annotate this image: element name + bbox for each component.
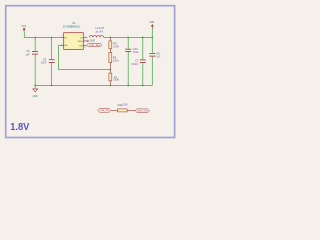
sheet frame bbox=[6, 6, 175, 138]
svg-text:100K: 100K bbox=[113, 46, 119, 49]
svg-text:GND: GND bbox=[90, 40, 95, 42]
wire FB vertical bbox=[57, 45, 59, 69]
resistor R7 bbox=[109, 73, 120, 82]
wire VSYS down to input rail bbox=[23, 32, 25, 38]
wire C9 down to ground rail bbox=[51, 63, 53, 86]
node junction rail/C6/GND bbox=[34, 85, 36, 87]
node junction rail/C10 bbox=[127, 85, 129, 87]
wire C10 column bbox=[127, 37, 129, 48]
wire L2 to output junction bbox=[104, 36, 111, 38]
wire C8 column bbox=[151, 37, 153, 53]
node junction 1V8 bbox=[152, 37, 154, 39]
svg-text:GND: GND bbox=[33, 96, 38, 98]
node 1V8 power symbol bbox=[149, 21, 155, 29]
wire C8 down to rail corner bbox=[151, 57, 153, 86]
wire C6 down to ground rail bbox=[34, 55, 36, 86]
pin IN bbox=[60, 37, 64, 39]
ground symbol bbox=[33, 85, 38, 98]
node global label 1V8_EN bottom bbox=[98, 109, 111, 113]
wire C6 column down bbox=[34, 38, 36, 51]
node junction input rail / C9 bbox=[51, 37, 53, 39]
node junction C7 bbox=[142, 37, 144, 39]
pin LX bbox=[83, 36, 87, 38]
svg-text:1.8V: 1.8V bbox=[10, 122, 29, 133]
svg-text:L2 1uH: L2 1uH bbox=[96, 27, 105, 30]
svg-text:1uF: 1uF bbox=[156, 56, 161, 59]
svg-text:10uF: 10uF bbox=[133, 51, 139, 54]
wire R6 to FB junction bbox=[109, 63, 111, 73]
svg-text:GND: GND bbox=[78, 41, 83, 43]
wire output rail bbox=[110, 36, 152, 38]
resistor R10 bbox=[111, 104, 135, 112]
wire C7 column bbox=[142, 37, 144, 59]
node global label QSPI_1V8 bottom right bbox=[135, 109, 149, 113]
wire R5 to R6 bbox=[109, 49, 111, 53]
wire 1V8 down to rail bbox=[151, 29, 153, 38]
pin GND bbox=[83, 40, 87, 42]
node junction rail/C9 bbox=[51, 85, 53, 87]
svg-text:1V8_EN: 1V8_EN bbox=[100, 110, 110, 112]
svg-text:EN: EN bbox=[80, 45, 83, 47]
svg-text:100K: 100K bbox=[113, 79, 119, 82]
svg-text:SY8088AAC: SY8088AAC bbox=[63, 25, 81, 29]
resistor R5 bbox=[109, 37, 120, 48]
node junction C10 bbox=[127, 37, 129, 39]
svg-text:C10: C10 bbox=[133, 48, 138, 51]
inductor L2 bbox=[89, 27, 104, 37]
wire ground rail bbox=[35, 84, 152, 86]
wire input rail horizontal bbox=[24, 37, 59, 39]
wire C7 down to rail bbox=[142, 63, 144, 85]
ground flag on GND pin bbox=[88, 40, 96, 43]
svg-text:100K: 100K bbox=[122, 104, 128, 107]
svg-text:VSYS: VSYS bbox=[22, 25, 27, 28]
node junction rail/R7 bbox=[110, 85, 112, 87]
node VSYS power symbol bbox=[22, 25, 27, 32]
node global label 1V8_EN at EN pin bbox=[87, 43, 102, 47]
op-amp U3 regulator bbox=[63, 21, 84, 50]
capacitor C10 bbox=[125, 48, 139, 54]
wire FB pin left bbox=[58, 44, 60, 46]
svg-text:1uH: 1uH bbox=[95, 30, 103, 33]
wire C10 down to rail bbox=[127, 52, 129, 86]
svg-text:100K: 100K bbox=[113, 60, 119, 63]
capacitor C7 bbox=[131, 59, 146, 65]
node junction rail/C7 bbox=[142, 85, 144, 87]
svg-text:QSPI_1V8: QSPI_1V8 bbox=[137, 111, 148, 113]
svg-text:100nF: 100nF bbox=[131, 63, 139, 66]
wire FB horizontal to divider bbox=[58, 69, 110, 71]
capacitor C9 bbox=[41, 58, 55, 64]
wire C9 column down bbox=[51, 38, 53, 60]
capacitor C6 bbox=[25, 50, 38, 57]
svg-text:1uF: 1uF bbox=[25, 53, 30, 56]
pin FB bbox=[60, 44, 64, 46]
capacitor C8 bbox=[149, 52, 161, 58]
node output junction bbox=[110, 37, 112, 39]
pin EN bbox=[83, 45, 86, 47]
svg-text:10uF: 10uF bbox=[41, 62, 47, 65]
resistor R6 bbox=[109, 53, 119, 63]
wire R7 to ground rail bbox=[109, 81, 111, 86]
svg-text:1V8_EN: 1V8_EN bbox=[89, 45, 101, 47]
svg-text:1V8: 1V8 bbox=[149, 21, 155, 24]
node FB junction bbox=[110, 69, 112, 71]
node junction input rail / C6 bbox=[34, 37, 36, 39]
